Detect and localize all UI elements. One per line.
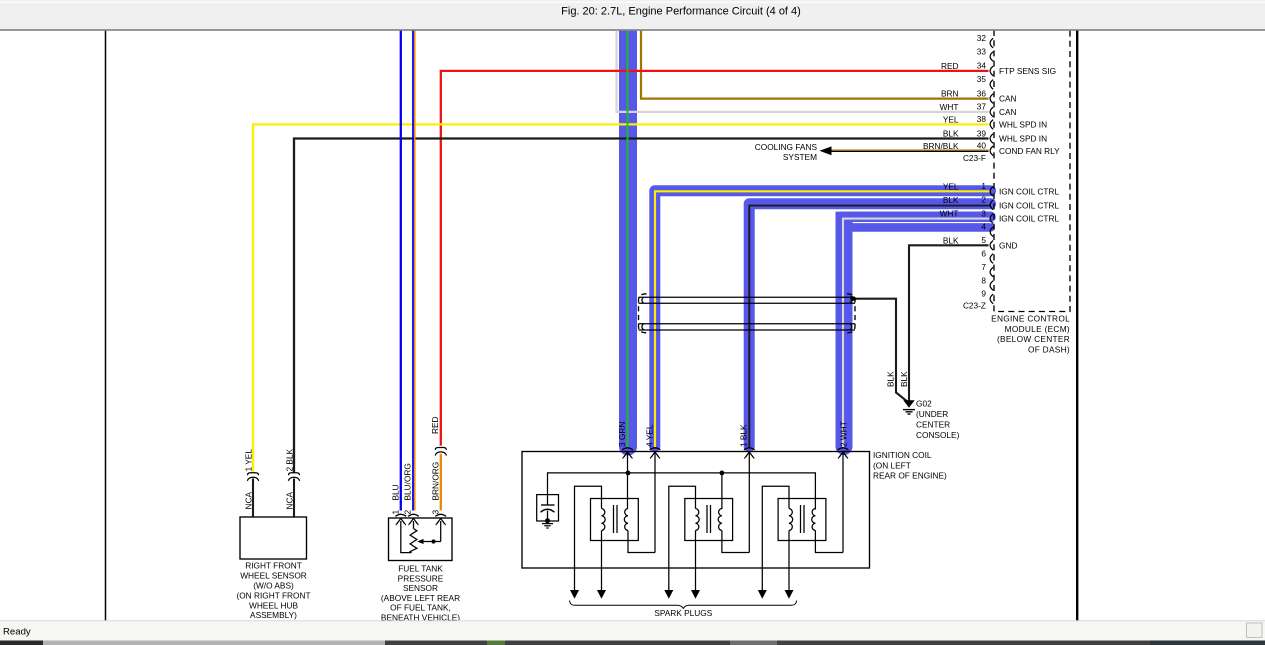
- svg-text:NCA: NCA: [284, 492, 294, 510]
- ECM dashed box: [994, 30, 1070, 312]
- wire T1 secondary bottom to YEL: [628, 531, 655, 553]
- coil box entry BLK: [744, 448, 755, 450]
- svg-text:CENTER: CENTER: [916, 419, 950, 429]
- svg-text:MODULE (ECM): MODULE (ECM): [1005, 324, 1070, 334]
- wire T3 secondary bottom to WHT: [815, 531, 843, 553]
- svg-text:WHT: WHT: [940, 102, 959, 112]
- svg-text:SENSOR: SENSOR: [403, 583, 438, 593]
- svg-text:CONSOLE): CONSOLE): [916, 430, 960, 440]
- svg-text:BLU/ORG: BLU/ORG: [403, 463, 413, 500]
- svg-text:BRN/BLK: BRN/BLK: [923, 141, 959, 151]
- svg-text:BLK: BLK: [899, 371, 909, 387]
- label FUEL TANK PRESSURE SENSOR: [381, 564, 460, 623]
- wire BLK to ECM pin 39: [294, 139, 989, 474]
- svg-text:(UNDER: (UNDER: [916, 409, 948, 419]
- coil box entry YEL: [650, 448, 661, 450]
- wire stub to wheel sensor pin 2: [293, 479, 295, 518]
- wire WHT core (IGN COIL CTRL pin 3): [843, 219, 991, 447]
- wire BRN/ORG (fuel sensor pin 3): [440, 454, 442, 511]
- svg-text:39: 39: [977, 128, 987, 138]
- transformer T3 primary loop wires: [762, 486, 789, 592]
- wire BRN to ECM pin 36: [641, 30, 989, 99]
- shield (dashed) around CAN twisted pairs: [639, 294, 647, 333]
- wire BRN/BLK to ECM pin 40: [820, 146, 989, 155]
- svg-text:ENGINE CONTROL: ENGINE CONTROL: [991, 314, 1070, 324]
- svg-text:WHT: WHT: [940, 209, 959, 219]
- svg-text:7: 7: [981, 262, 986, 272]
- sensor internal wiring: [401, 521, 412, 553]
- wire shield drain to G02: [857, 299, 907, 402]
- svg-text:(W/O ABS): (W/O ABS): [253, 580, 294, 590]
- inline connector wheel sensor pin 1: [248, 473, 259, 475]
- label COOLING FANS SYSTEM: [755, 142, 818, 162]
- svg-text:(BELOW CENTER: (BELOW CENTER: [997, 334, 1070, 344]
- right front wheel sensor box: [240, 517, 307, 559]
- svg-text:IGN COIL CTRL: IGN COIL CTRL: [999, 214, 1059, 224]
- svg-text:OF FUEL TANK,: OF FUEL TANK,: [390, 603, 451, 613]
- transformer T1 primary winding: [602, 509, 606, 531]
- ignition transformer T1 box: [591, 499, 639, 541]
- svg-text:(ON LEFT: (ON LEFT: [873, 460, 911, 470]
- svg-text:2 BLK: 2 BLK: [284, 448, 294, 471]
- svg-text:COND FAN RLY: COND FAN RLY: [999, 146, 1060, 156]
- svg-text:4: 4: [981, 222, 986, 232]
- svg-text:2 WHT: 2 WHT: [838, 421, 848, 447]
- transformer T3 secondary winding: [812, 509, 816, 531]
- svg-text:BRN: BRN: [941, 89, 959, 99]
- svg-text:NCA: NCA: [243, 492, 253, 510]
- junction node on GRN wire: [626, 471, 631, 476]
- svg-text:34: 34: [977, 61, 987, 71]
- transformer T1 primary loop wires: [575, 486, 602, 592]
- wire BLK core (IGN COIL CTRL pin 2): [749, 206, 990, 447]
- wire BLK GND from ECM pin 5: [909, 245, 989, 400]
- transformer T3 primary winding: [789, 509, 793, 531]
- diagram left border: [105, 30, 107, 621]
- svg-text:WHEEL HUB: WHEEL HUB: [249, 600, 298, 610]
- inline connector wheel sensor pin 2: [289, 473, 300, 475]
- svg-text:Ready: Ready: [3, 627, 31, 638]
- svg-text:SPARK PLUGS: SPARK PLUGS: [654, 608, 712, 618]
- fuel tank pressure sensor box: [389, 518, 453, 561]
- svg-text:SYSTEM: SYSTEM: [783, 152, 817, 162]
- twisted pair wire 2b: [639, 329, 856, 331]
- highlight band GRN ignition wire: [619, 30, 637, 440]
- svg-text:4 YEL: 4 YEL: [644, 424, 654, 447]
- label ENGINE CONTROL MODULE: [991, 314, 1070, 355]
- svg-text:33: 33: [977, 46, 987, 56]
- svg-text:37: 37: [977, 102, 987, 112]
- svg-text:RED: RED: [941, 61, 959, 71]
- ECM pin function labels: [999, 66, 1060, 250]
- svg-text:BLK: BLK: [943, 195, 959, 205]
- svg-text:REAR OF ENGINE): REAR OF ENGINE): [873, 471, 947, 481]
- box entry pin 2: [408, 514, 419, 516]
- highlight band WHT ignition wire pin3: [842, 212, 991, 223]
- svg-text:C23-Z: C23-Z: [963, 301, 986, 311]
- svg-text:OF DASH): OF DASH): [1028, 344, 1070, 354]
- svg-text:1 BLK: 1 BLK: [739, 424, 749, 447]
- wire BLK inside coil box: [748, 452, 750, 553]
- svg-text:CAN: CAN: [999, 94, 1017, 104]
- wire BLU/ORG (fuel sensor pin 2): [413, 30, 415, 511]
- wire T2 secondary bottom to BLK: [722, 531, 749, 553]
- ECM pin numbers C23-F: [977, 33, 987, 151]
- svg-text:RED: RED: [430, 416, 440, 434]
- svg-text:38: 38: [977, 114, 987, 124]
- label IGNITION COIL: [873, 450, 947, 480]
- svg-text:COOLING FANS: COOLING FANS: [755, 142, 818, 152]
- svg-text:WHL SPD IN: WHL SPD IN: [999, 119, 1047, 129]
- svg-text:Fig. 20: 2.7L, Engine Performa: Fig. 20: 2.7L, Engine Performance Circui…: [561, 6, 801, 18]
- wire YEL inside coil box: [654, 452, 656, 553]
- svg-text:(ON RIGHT FRONT: (ON RIGHT FRONT: [236, 591, 310, 601]
- title bar bottom separator (over wires): [0, 29, 1265, 31]
- ignition transformer T3 box: [778, 499, 826, 541]
- wire RED to ECM pin 34: [441, 71, 989, 446]
- svg-text:3: 3: [431, 510, 441, 515]
- coil box entry WHT: [838, 448, 849, 450]
- inline connector RED/BRN-ORG: [435, 448, 446, 450]
- status bar: [0, 621, 1265, 641]
- svg-text:1: 1: [390, 510, 400, 515]
- wire YEL core (IGN COIL CTRL pin 1): [655, 191, 991, 447]
- svg-text:IGN COIL CTRL: IGN COIL CTRL: [999, 201, 1059, 211]
- svg-text:2: 2: [981, 195, 986, 205]
- svg-text:PRESSURE: PRESSURE: [398, 573, 444, 583]
- svg-text:36: 36: [977, 88, 987, 98]
- svg-text:8: 8: [981, 275, 986, 285]
- svg-text:2: 2: [403, 510, 413, 515]
- ground G02: [903, 400, 915, 414]
- ignition coil box: [522, 452, 870, 569]
- svg-text:5: 5: [981, 235, 986, 245]
- svg-text:BLK: BLK: [943, 129, 959, 139]
- twisted pair wire 1b: [639, 302, 856, 304]
- spark plug output arrows: [570, 590, 794, 599]
- highlight band pin4: [847, 223, 991, 232]
- wire GRN inside coil box: [627, 452, 629, 509]
- transformer T2 core: [706, 505, 708, 533]
- svg-text:YEL: YEL: [943, 181, 959, 191]
- svg-text:FUEL TANK: FUEL TANK: [398, 564, 443, 574]
- svg-text:35: 35: [977, 74, 987, 84]
- svg-text:3 GRN: 3 GRN: [617, 422, 627, 447]
- potentiometer resistor: [410, 529, 417, 553]
- svg-text:GND: GND: [999, 240, 1017, 250]
- ECM pin numbers C23-Z: [981, 181, 986, 299]
- wire WHT inside coil box: [842, 452, 844, 553]
- coil box entry GRN: [622, 448, 633, 450]
- svg-text:32: 32: [977, 33, 987, 43]
- diagram right border: [1076, 30, 1078, 621]
- capacitor ground: [542, 518, 553, 528]
- ECM pin cups C23-F: [990, 38, 993, 155]
- highlight band YEL ignition wire pin1: [655, 191, 991, 447]
- wire BLU (fuel sensor pin 1): [400, 30, 402, 511]
- svg-text:(ABOVE LEFT REAR: (ABOVE LEFT REAR: [381, 593, 460, 603]
- svg-text:BLK: BLK: [943, 235, 959, 245]
- svg-text:G02: G02: [916, 398, 932, 408]
- svg-text:IGNITION COIL: IGNITION COIL: [873, 450, 932, 460]
- svg-text:BRN/ORG: BRN/ORG: [431, 462, 441, 501]
- svg-text:IGN COIL CTRL: IGN COIL CTRL: [999, 186, 1059, 196]
- wire T2 tap down: [721, 473, 723, 509]
- svg-text:BLU: BLU: [390, 484, 400, 500]
- wire colour labels at ECM: [923, 61, 959, 245]
- transformer T2 primary loop wires: [669, 486, 696, 592]
- wire GRN core (ignition coil pin 3): [627, 30, 629, 447]
- junction node T2 tap: [720, 471, 725, 476]
- twisted pair wire 2a: [639, 323, 856, 325]
- twisted pair wire 1a: [639, 296, 856, 298]
- twisted pair end cups: [642, 297, 852, 330]
- transformer T2 primary winding: [696, 509, 700, 531]
- highlight band BLK ignition wire pin2: [749, 204, 990, 447]
- svg-text:FTP SENS SIG: FTP SENS SIG: [999, 66, 1056, 76]
- svg-text:RIGHT FRONT: RIGHT FRONT: [245, 560, 302, 570]
- svg-text:BLK: BLK: [885, 371, 895, 387]
- transformer T3 core: [800, 505, 802, 533]
- svg-text:1 YEL: 1 YEL: [243, 449, 253, 472]
- svg-text:WHEEL SENSOR: WHEEL SENSOR: [240, 571, 307, 581]
- supply bus wire: [548, 473, 816, 510]
- ECM pin cups C23-Z: [990, 187, 993, 304]
- transformer T1 secondary winding: [624, 509, 628, 531]
- wire WHT to ECM pin 37: [617, 30, 989, 112]
- title bar: [0, 0, 1265, 30]
- ignition transformer T2 box: [685, 499, 733, 541]
- wiper arrow: [417, 539, 441, 544]
- svg-text:9: 9: [981, 289, 986, 299]
- wire stub to wheel sensor pin 1: [252, 479, 254, 518]
- svg-text:3: 3: [981, 208, 986, 218]
- svg-text:6: 6: [981, 248, 986, 258]
- transformer T1 core: [613, 505, 615, 533]
- wire YEL to ECM pin 38: [253, 124, 989, 473]
- capacitor C1 box: [537, 495, 559, 521]
- taskbar sliver: [0, 641, 1265, 645]
- box entry pin 1: [395, 514, 406, 516]
- svg-text:CAN: CAN: [999, 107, 1017, 117]
- transformer T2 secondary winding: [718, 509, 722, 531]
- svg-text:ASSEMBLY): ASSEMBLY): [250, 610, 297, 620]
- box entry pin 3: [435, 514, 446, 516]
- svg-text:40: 40: [977, 141, 987, 151]
- svg-text:1: 1: [981, 181, 986, 191]
- svg-text:YEL: YEL: [943, 114, 959, 124]
- label G02: [916, 398, 960, 440]
- label RIGHT FRONT WHEEL SENSOR: [236, 560, 310, 620]
- svg-text:WHL SPD IN: WHL SPD IN: [999, 134, 1047, 144]
- capacitor C1: [541, 505, 555, 521]
- svg-text:C23-F: C23-F: [963, 153, 986, 163]
- brace spark plugs: [570, 601, 797, 609]
